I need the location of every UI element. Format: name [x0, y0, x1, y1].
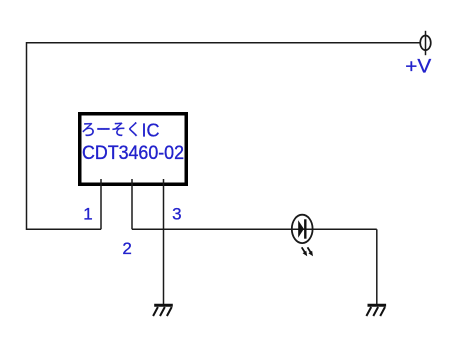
wire: pin 1 stub [100, 179, 102, 229]
wire: +V top rail from terminal to left, down left side, to pin 1 [27, 43, 421, 230]
ground GND1 (left): bar [154, 304, 173, 307]
LED D1: light arrow 2 [308, 247, 314, 256]
ground GND1: hatch 2 [160, 307, 165, 316]
wire: right vertical down to ground [376, 229, 378, 304]
ground GND2: hatch 3 [380, 307, 385, 316]
ground GND1: hatch 3 [167, 307, 172, 316]
svg-text:2: 2 [122, 239, 131, 258]
ground GND2: hatch 2 [373, 307, 378, 316]
ground GND2 (right): bar [368, 304, 387, 307]
terminal +V: vertical stub [425, 31, 427, 55]
IC U1: candle IC CDT3460-02 body [80, 114, 187, 185]
svg-text:CDT3460-02: CDT3460-02 [82, 143, 184, 164]
LED D1: light arrow 1 [302, 247, 308, 256]
LED D1: anode triangle [298, 220, 304, 238]
wire: pin 2 stub [131, 179, 133, 229]
LED D1: circle [292, 215, 313, 243]
terminal +V: circle [420, 36, 431, 51]
wire: pin 3 down to ground [163, 179, 165, 304]
ground GND2: hatch 1 [366, 307, 371, 316]
ground GND1: hatch 1 [153, 307, 158, 316]
wire: pin 2 to LED to right vertical [132, 228, 377, 230]
svg-text:1: 1 [83, 204, 92, 223]
svg-text:IC: IC [142, 119, 160, 140]
svg-text:+V: +V [405, 57, 431, 78]
label: IC line 1 kana ろーそく [83, 122, 138, 136]
LED D1: cathode bar [304, 219, 306, 238]
svg-text:3: 3 [172, 205, 181, 224]
